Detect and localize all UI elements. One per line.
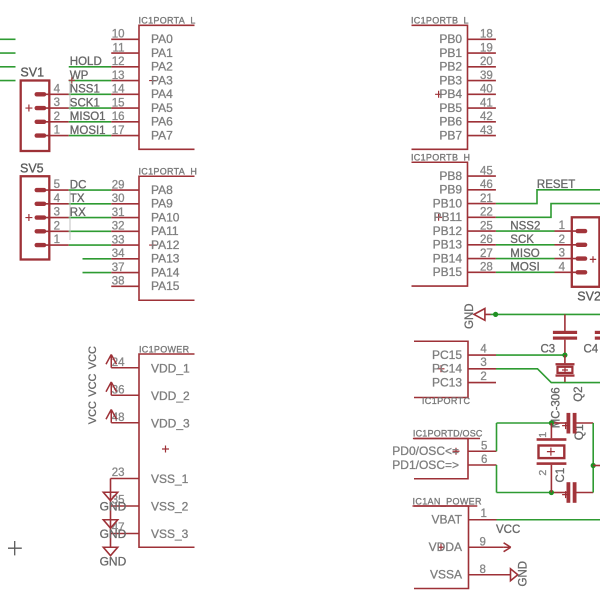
svg-text:PB10: PB10	[433, 196, 463, 210]
svg-text:1: 1	[559, 220, 565, 232]
svg-text:PB12: PB12	[433, 224, 463, 238]
IC1 pin 23 VSS_1	[111, 478, 140, 480]
svg-text:2: 2	[559, 234, 565, 246]
svg-text:26: 26	[480, 234, 493, 246]
svg-text:32: 32	[112, 221, 125, 233]
SV2 pad pin 3	[576, 256, 588, 260]
IC1 pin 27 PB14	[468, 258, 496, 260]
IC1 pin 15 PA5	[111, 107, 139, 109]
connector SV2 origin cross	[590, 256, 596, 262]
svg-text:PA1: PA1	[151, 46, 173, 60]
svg-text:PB11: PB11	[434, 210, 463, 224]
ground symbol GND 1	[103, 492, 117, 500]
svg-text:PB1: PB1	[439, 46, 462, 60]
IC1 pin 2 PC13	[468, 382, 496, 384]
IC1 pin 31 PA10	[111, 217, 139, 219]
svg-text:TX: TX	[70, 193, 85, 205]
svg-text:9: 9	[480, 536, 486, 548]
svg-text:PC15: PC15	[432, 348, 462, 362]
wire net stub to PA3	[0, 80, 16, 82]
svg-text:PB6: PB6	[439, 115, 462, 129]
svg-text:PB3: PB3	[439, 73, 462, 87]
capacitor C3 top lead	[564, 314, 566, 331]
SV1 pin 2 lead	[40, 121, 69, 123]
svg-text:PB14: PB14	[433, 251, 463, 265]
svg-text:29: 29	[112, 179, 125, 191]
IC1 pin 14 PA4	[111, 93, 139, 95]
svg-text:C3: C3	[541, 343, 556, 355]
svg-text:45: 45	[480, 165, 493, 177]
svg-text:VSS_1: VSS_1	[151, 472, 189, 486]
svg-text:PA3: PA3	[151, 73, 173, 87]
svg-text:VDD_2: VDD_2	[151, 389, 190, 403]
IC1 pin 28 PB15	[468, 271, 496, 273]
svg-text:3: 3	[559, 248, 565, 260]
svg-text:20: 20	[480, 56, 493, 68]
svg-text:34: 34	[112, 248, 125, 260]
svg-text:VBAT: VBAT	[432, 513, 463, 527]
svg-text:3: 3	[480, 357, 486, 369]
capacitor C2 right lead	[577, 422, 594, 424]
svg-text:PB9: PB9	[439, 183, 462, 197]
svg-text:40: 40	[480, 84, 493, 96]
svg-text:PB13: PB13	[433, 238, 463, 252]
IC1 pin 39 PB3	[468, 80, 496, 82]
svg-text:SCK: SCK	[510, 234, 534, 246]
svg-text:RESET: RESET	[537, 179, 575, 191]
wire net PC15 to C3	[496, 354, 565, 356]
svg-text:PA12: PA12	[151, 238, 180, 252]
wire net OSC_OUT bottom	[497, 492, 552, 494]
svg-text:SV1: SV1	[20, 65, 44, 79]
svg-text:IC1PORTC: IC1PORTC	[422, 396, 471, 406]
svg-text:6: 6	[481, 454, 487, 466]
label leader line gray WP	[69, 81, 71, 110]
svg-text:PC14: PC14	[432, 362, 462, 376]
IC1PORTB_L box	[412, 25, 468, 149]
svg-text:IC1PORTD/OSC: IC1PORTD/OSC	[413, 429, 483, 439]
svg-text:PD1/OSC=>: PD1/OSC=>	[392, 458, 459, 472]
svg-text:1: 1	[54, 125, 60, 137]
SV5 pin 5 lead	[40, 189, 69, 191]
IC1 pin 47 VSS_3	[111, 533, 140, 535]
IC1 pin 21 PB10	[468, 203, 496, 205]
wire net HOLD	[69, 66, 112, 68]
svg-text:SCK1: SCK1	[70, 97, 100, 109]
SV1 pad pin 3	[35, 106, 47, 110]
junction dot OSC_IN	[549, 420, 554, 425]
crystal Q1 bottom plate	[537, 462, 567, 465]
svg-text:PB15: PB15	[433, 265, 463, 279]
svg-text:18: 18	[480, 29, 493, 41]
svg-text:PC13: PC13	[432, 375, 462, 389]
SV1 pin 1 lead	[40, 135, 69, 137]
capacitor C1 left lead	[551, 492, 566, 494]
connector SV5 origin cross	[25, 214, 32, 221]
IC1 pin 43 PB7	[468, 135, 496, 137]
svg-text:VCC: VCC	[87, 346, 99, 369]
power symbol VCC right-pointing	[504, 543, 511, 552]
svg-text:VCC: VCC	[87, 401, 99, 424]
svg-text:PB0: PB0	[439, 32, 462, 46]
svg-text:PB5: PB5	[439, 101, 462, 115]
svg-text:27: 27	[480, 248, 493, 260]
IC1 pin 46 PB9	[468, 189, 496, 191]
svg-text:4: 4	[54, 193, 61, 205]
svg-text:VSS_2: VSS_2	[151, 500, 189, 514]
svg-text:43: 43	[480, 125, 493, 137]
power symbol VCC at VDD_1	[106, 354, 117, 367]
SV5 pin 3 lead	[40, 217, 69, 219]
IC1 pin 12 PA2	[111, 66, 139, 68]
svg-text:37: 37	[112, 262, 125, 274]
svg-text:19: 19	[480, 42, 493, 54]
IC1 pin 29 PA8	[111, 189, 139, 191]
SV5 pad pin 5	[35, 188, 47, 192]
crystal Q2 bottom plate	[556, 374, 575, 376]
IC1 pin 32 PA11	[111, 230, 139, 232]
svg-text:VDD_3: VDD_3	[151, 416, 190, 430]
svg-text:GND: GND	[518, 561, 530, 587]
IC1AN_POWER label underline	[413, 505, 478, 507]
wire net MISO	[496, 258, 555, 260]
svg-text:GND: GND	[100, 499, 127, 513]
IC1PORTD/OSC label underline	[413, 438, 480, 440]
svg-text:PA2: PA2	[151, 60, 173, 74]
svg-text:16: 16	[112, 111, 125, 123]
IC1 pin 1 VBAT	[469, 519, 497, 521]
connector SV5 body	[21, 176, 50, 259]
svg-text:PA11: PA11	[151, 224, 179, 238]
IC1 pin 34 PA13	[111, 258, 139, 260]
wire net OSC_IN vertical	[496, 423, 498, 451]
junction dot PC15 C3	[562, 352, 567, 357]
sheet origin cross bottom-left	[8, 541, 22, 555]
svg-text:PD0/OSC<=: PD0/OSC<=	[392, 444, 459, 458]
svg-text:PA8: PA8	[151, 183, 173, 197]
svg-text:21: 21	[480, 193, 493, 205]
svg-text:17: 17	[112, 125, 125, 137]
svg-text:VSSA: VSSA	[430, 568, 462, 582]
svg-text:PA4: PA4	[151, 87, 173, 101]
IC1PORTA_H box	[139, 176, 195, 300]
svg-text:PA13: PA13	[151, 252, 180, 266]
SV5 pad pin 3	[35, 215, 47, 219]
svg-text:VCC: VCC	[496, 524, 520, 536]
wire net GND rail	[491, 313, 600, 315]
svg-text:13: 13	[112, 70, 125, 82]
IC1 pin 19 PB1	[468, 52, 496, 54]
svg-text:PB4: PB4	[439, 87, 462, 101]
capacitor C1 origin cross	[562, 491, 569, 498]
net label origin cross WP	[69, 77, 75, 83]
svg-text:2: 2	[537, 470, 549, 476]
wire net TX	[69, 203, 112, 205]
IC1PORTC origin cross	[438, 365, 445, 372]
svg-text:IC1POWER: IC1POWER	[139, 345, 190, 355]
IC1AN_POWER box	[414, 506, 469, 589]
IC1PORTA_L origin cross	[149, 77, 156, 84]
wire stub right rail red	[593, 465, 600, 467]
svg-text:PA10: PA10	[151, 210, 180, 224]
IC1 pin 22 PB11	[468, 216, 496, 218]
svg-text:10: 10	[112, 29, 125, 41]
svg-text:NSS1: NSS1	[70, 84, 100, 96]
svg-text:14: 14	[112, 84, 125, 96]
svg-text:GND: GND	[100, 527, 127, 541]
SV5 pin 4 lead	[40, 203, 69, 205]
SV2 pin 2 lead	[555, 244, 582, 246]
junction dot right rail	[591, 463, 596, 468]
svg-text:30: 30	[112, 193, 125, 205]
crystal Q1 pin 1 lead	[550, 423, 552, 438]
svg-text:C1: C1	[555, 468, 567, 483]
junction dot GND rail	[493, 312, 498, 317]
capacitor C4 plates clipped	[595, 331, 600, 334]
wire net stub to PA2	[0, 66, 16, 68]
IC1POWER box	[139, 354, 195, 547]
wire net DC	[69, 189, 112, 191]
IC1 pin 4 PC15	[468, 354, 496, 356]
IC1 pin 33 PA12	[111, 244, 139, 246]
svg-text:IC1PORTB_H: IC1PORTB_H	[411, 153, 470, 163]
svg-text:GND: GND	[100, 554, 127, 568]
svg-text:2: 2	[54, 111, 60, 123]
svg-text:4: 4	[480, 343, 487, 355]
IC1PORTC box	[414, 341, 468, 397]
IC1PORTA_L box	[139, 25, 195, 149]
wire net NSS2	[496, 230, 555, 232]
svg-text:RX: RX	[70, 207, 86, 219]
IC1 pin 18 PB0	[468, 38, 496, 40]
svg-text:28: 28	[480, 262, 493, 274]
IC1 pin 8 VSSA	[469, 574, 511, 576]
svg-text:SV5: SV5	[20, 162, 44, 176]
svg-text:VDD_1: VDD_1	[151, 361, 190, 375]
IC1 pin 9 VDDA	[469, 546, 504, 548]
svg-text:46: 46	[480, 179, 493, 191]
svg-text:1: 1	[537, 432, 549, 438]
IC1PORTD/OSC box	[414, 439, 468, 479]
svg-text:PA15: PA15	[151, 279, 180, 293]
svg-text:PB7: PB7	[439, 128, 462, 142]
wire net RESET from PB10	[496, 190, 600, 204]
wire net stub PA14	[83, 272, 112, 274]
power symbol VCC at VDD_3	[106, 409, 117, 422]
wire net PC14 with 45deg bend	[496, 369, 600, 383]
svg-text:PA7: PA7	[151, 128, 173, 142]
IC1 pin 17 PA7	[111, 135, 139, 137]
wire net SV5 row	[69, 230, 112, 232]
IC1 pin 10 PA0	[111, 38, 139, 40]
SV5 pad pin 1	[35, 243, 47, 247]
svg-text:4: 4	[54, 83, 61, 95]
IC1 pin 11 PA1	[111, 52, 139, 54]
svg-text:IC1AN_POWER: IC1AN_POWER	[413, 496, 483, 506]
capacitor C3 bottom lead	[564, 340, 566, 355]
IC1AN_POWER origin cross	[438, 544, 445, 551]
wire net SV5 row	[69, 244, 112, 246]
wire net VBAT	[497, 519, 600, 521]
ground symbol GND 2	[103, 520, 117, 528]
svg-text:DC: DC	[70, 179, 87, 191]
svg-text:42: 42	[480, 111, 493, 123]
SV5 pin 1 lead	[40, 244, 69, 246]
IC1 pin 30 PA9	[111, 203, 139, 205]
wire net OSC_IN top	[497, 422, 552, 424]
svg-text:3: 3	[54, 97, 60, 109]
svg-text:VSS_3: VSS_3	[151, 527, 189, 541]
IC1 pin 45 PB8	[468, 175, 496, 177]
wire net WP	[69, 80, 112, 82]
SV2 pin 1 lead	[555, 230, 582, 232]
svg-text:11: 11	[113, 42, 125, 54]
IC1 pin 20 PB2	[468, 66, 496, 68]
svg-text:2: 2	[54, 220, 60, 232]
svg-text:PA0: PA0	[151, 32, 173, 46]
svg-text:IC1PORTA_L: IC1PORTA_L	[139, 16, 196, 26]
SV2 pad pin 2	[576, 243, 588, 247]
svg-text:5: 5	[481, 441, 487, 453]
IC1 pin 40 PB4	[468, 93, 496, 95]
crystal Q1 origin cross	[547, 448, 555, 456]
svg-text:39: 39	[480, 70, 493, 82]
IC1 pin 37 PA14	[111, 272, 139, 274]
svg-text:PA14: PA14	[151, 265, 180, 279]
svg-text:12: 12	[112, 56, 125, 68]
power symbol VCC at VDD_2	[106, 382, 117, 395]
svg-text:5: 5	[54, 179, 60, 191]
svg-text:23: 23	[112, 467, 125, 479]
svg-text:MOSI: MOSI	[510, 262, 539, 274]
SV2 pad pin 1	[576, 229, 588, 233]
capacitor C2 plates	[567, 413, 571, 434]
label leader line gray DC-RX	[69, 191, 71, 240]
svg-text:22: 22	[480, 207, 493, 219]
ground symbol GND 3	[103, 547, 117, 555]
SV5 pad pin 4	[35, 202, 47, 206]
IC1 pin 41 PB5	[468, 107, 496, 109]
IC1 pin 35 VSS_2	[111, 505, 140, 507]
SV2 pin 4 lead	[555, 271, 582, 273]
svg-text:Q2: Q2	[573, 386, 585, 401]
IC1PORTB_H box	[412, 162, 468, 286]
crystal Q2 origin cross	[562, 367, 568, 373]
svg-text:MOSI1: MOSI1	[70, 125, 106, 137]
wire net NSS1	[69, 93, 112, 95]
crystal Q2 bottom lead	[564, 377, 566, 383]
junction dot OSC_OUT	[549, 490, 554, 495]
IC1POWER origin cross	[162, 446, 169, 453]
wire net MISO1	[69, 121, 112, 123]
wire GND drop line	[110, 479, 112, 548]
wire net MOSI1	[69, 135, 112, 137]
svg-text:2: 2	[480, 371, 486, 383]
SV1 pad pin 4	[35, 92, 47, 96]
IC1 pin 26 PB13	[468, 244, 496, 246]
svg-text:33: 33	[112, 234, 125, 246]
svg-text:IC1PORTB_L: IC1PORTB_L	[411, 16, 469, 26]
SV1 pin 3 lead	[40, 107, 69, 109]
crystal Q2 top lead	[564, 355, 566, 363]
svg-text:MISO: MISO	[510, 248, 539, 260]
capacitor C2 left lead	[551, 422, 566, 424]
wire net stub to PA1	[0, 52, 16, 54]
svg-text:31: 31	[112, 207, 125, 219]
svg-text:NSS2: NSS2	[510, 220, 540, 232]
SV1 pin 4 lead	[40, 93, 69, 95]
IC1 pin 6 PD1/OSC	[468, 464, 497, 466]
wire net from PB11	[496, 204, 600, 218]
svg-text:41: 41	[480, 97, 493, 109]
IC1PORTB_L origin cross	[435, 91, 442, 98]
IC1 pin 13 PA3	[111, 80, 139, 82]
svg-text:MISO1: MISO1	[70, 111, 106, 123]
capacitor C1 plates	[567, 482, 571, 503]
IC1PORTD/OSC origin cross	[453, 448, 460, 455]
svg-text:4: 4	[559, 261, 566, 273]
svg-text:VCC: VCC	[87, 373, 99, 396]
ground symbol GND left-pointing	[474, 309, 491, 321]
svg-text:PB2: PB2	[439, 60, 462, 74]
crystal Q1 top plate	[537, 438, 567, 441]
svg-text:38: 38	[112, 276, 125, 288]
connector SV2 body	[572, 217, 600, 286]
IC1 pin 36 VDD_2	[111, 394, 139, 396]
IC1PORTB_H origin cross	[435, 214, 442, 221]
ground symbol GND right-pointing	[511, 569, 518, 581]
IC1PORTA_H origin cross	[149, 242, 156, 249]
svg-text:1: 1	[481, 508, 487, 520]
SV1 pad pin 1	[35, 133, 47, 137]
crystal Q2 top plate	[556, 363, 575, 365]
svg-text:15: 15	[112, 97, 125, 109]
svg-text:25: 25	[480, 220, 493, 232]
wire net stub to PA0	[0, 38, 16, 40]
crystal Q2 body	[558, 367, 573, 373]
IC1 pin 25 PB12	[468, 230, 496, 232]
svg-text:3: 3	[54, 207, 60, 219]
capacitor C1 right lead	[577, 492, 594, 494]
svg-text:8: 8	[480, 564, 486, 576]
SV1 pad pin 2	[35, 120, 47, 124]
svg-text:GND: GND	[464, 303, 476, 329]
svg-text:PA6: PA6	[151, 115, 173, 129]
crystal Q1 pin 2 lead	[550, 465, 552, 493]
wire net SCK1	[69, 107, 112, 109]
IC1 pin 5 PD0/OSC	[468, 450, 497, 452]
crystal Q1 body	[539, 446, 565, 459]
svg-text:VDDA: VDDA	[429, 540, 462, 554]
svg-text:PA5: PA5	[151, 101, 173, 115]
svg-text:SV2: SV2	[577, 290, 600, 304]
IC1 pin 38 PA15	[111, 285, 139, 287]
connector SV1 body	[21, 81, 50, 152]
IC1 pin 3 PC14	[468, 368, 496, 370]
IC1 pin 48 VDD_3	[111, 422, 139, 424]
SV2 pin 3 lead	[555, 258, 582, 260]
svg-text:1: 1	[54, 234, 60, 246]
SV2 pad pin 4	[576, 270, 588, 274]
wire net MOSI	[496, 271, 555, 273]
IC1 pin 42 PB6	[468, 121, 496, 123]
wire net right rail vertical	[592, 423, 594, 493]
connector SV1 origin cross	[25, 105, 32, 112]
capacitor C2 origin cross	[562, 422, 569, 429]
svg-text:C4: C4	[584, 343, 599, 355]
svg-text:IC1PORTA_H: IC1PORTA_H	[139, 167, 198, 177]
IC1 pin 16 PA6	[111, 121, 139, 123]
